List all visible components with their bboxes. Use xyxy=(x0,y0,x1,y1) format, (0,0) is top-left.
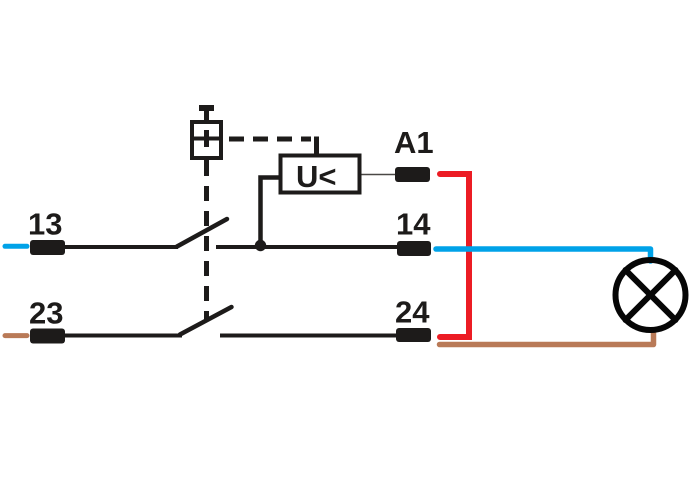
svg-text:A1: A1 xyxy=(394,125,434,160)
push button lower stem xyxy=(204,158,209,176)
lamp cross stroke 1 xyxy=(626,270,676,320)
contact blade 23-24 xyxy=(180,307,232,335)
svg-text:U<: U< xyxy=(296,159,337,194)
wire coil to A1 terminal (thin) xyxy=(362,174,397,176)
wire coil left lead xyxy=(261,178,281,244)
push button inner mid line xyxy=(192,137,221,141)
brown wire left of 23 xyxy=(5,333,27,338)
mechanical link corner into coil top xyxy=(314,137,319,155)
push button inner plunger tick xyxy=(204,130,209,147)
wire contact to terminal 14 xyxy=(216,245,397,249)
terminal 24 xyxy=(396,328,431,342)
svg-text:14: 14 xyxy=(396,207,431,242)
push button actuator (mushroom head bar) xyxy=(199,105,214,111)
mechanical link dashed vertical xyxy=(204,186,209,321)
brown wire 24 to lamp xyxy=(440,331,654,345)
terminal A1 xyxy=(395,167,430,182)
svg-text:24: 24 xyxy=(395,295,430,330)
contact blade 13-14 xyxy=(177,219,227,247)
lamp cross stroke 2 xyxy=(626,270,676,320)
lamp circle xyxy=(616,260,686,330)
wire 23 to contact xyxy=(65,334,182,338)
blue wire left of 13 xyxy=(5,244,27,249)
terminal 14 xyxy=(397,241,431,256)
push button actuator stem xyxy=(204,108,209,122)
mechanical link dashed horizontal to coil xyxy=(229,137,311,142)
terminal 23 xyxy=(30,329,65,344)
undervoltage coil U< box xyxy=(281,156,360,193)
blue wire 14 to lamp xyxy=(436,249,651,261)
terminal 13 xyxy=(30,240,65,255)
svg-text:13: 13 xyxy=(28,207,62,242)
push button body box xyxy=(192,122,221,158)
wire 13 to contact xyxy=(64,245,178,249)
junction node on line 13-14 xyxy=(255,240,266,251)
wire contact to terminal 24 xyxy=(220,334,396,338)
red wire A1 to 24 xyxy=(440,174,469,337)
svg-text:23: 23 xyxy=(29,296,63,331)
